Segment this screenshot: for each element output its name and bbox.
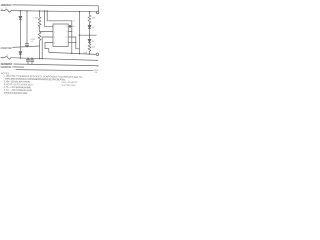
diode D4 label [92, 41, 95, 43]
pin 7 stub [68, 31, 72, 33]
svg-text:AC LINE POWER: AC LINE POWER [0, 47, 12, 50]
svg-text:3: 3 [54, 37, 55, 39]
svg-text:1: 1 [54, 26, 55, 28]
wire mid tap [80, 34, 97, 36]
capacitor C3 value [72, 26, 76, 28]
svg-text:8: 8 [66, 26, 67, 28]
diode D3 label [92, 27, 95, 29]
pin numbers left [54, 26, 55, 44]
resistor R5 [88, 12, 91, 26]
fuse F1 label [1, 9, 4, 11]
wire [19, 19, 21, 51]
pin 5 stub [68, 42, 76, 44]
wire rail D [49, 52, 97, 54]
wire rail H [16, 70, 93, 71]
capacitor C5 [27, 58, 29, 64]
wire R2 to rail E [39, 46, 41, 59]
diode D4 [88, 39, 91, 42]
svg-text:1.0M: 1.0M [33, 18, 38, 20]
svg-text:0.1M: 0.1M [30, 39, 35, 41]
fuse F2 [1, 56, 11, 59]
notes annotation right [62, 81, 79, 87]
svg-text:2: 2 [54, 31, 55, 33]
capacitor C3 [70, 25, 71, 28]
rail D label [84, 53, 88, 55]
svg-text:AC NEUTRAL/TERMINATOR: AC NEUTRAL/TERMINATOR [0, 63, 12, 66]
terminal J1 [96, 11, 99, 14]
resistor R5 value [92, 18, 96, 20]
svg-text:6: 6 [66, 37, 67, 39]
node NEUTRAL POWER label [0, 66, 11, 69]
svg-text:C2: C2 [73, 21, 75, 23]
wire top rail A [12, 5, 98, 11]
diode D3 [88, 25, 91, 28]
wire V47 overhead [47, 11, 72, 53]
wire rail C [13, 46, 40, 47]
capacitor C1 value [30, 41, 34, 43]
fuse F1 ref [5, 8, 7, 10]
junction dots [20, 10, 91, 59]
wire pin4 [45, 43, 53, 53]
wire pin3 [42, 37, 53, 59]
fuse F2 ref [6, 54, 8, 56]
resistor R6 value [92, 47, 96, 49]
svg-text:NEUTRAL POWER: NEUTRAL POWER [0, 66, 11, 69]
figure number [94, 70, 99, 74]
capacitor C6 [31, 58, 33, 64]
wire tap to pin2 [40, 27, 53, 31]
svg-text:AC LINE/TERMINATOR: AC LINE/TERMINATOR [0, 4, 12, 7]
IC U1 [53, 24, 68, 46]
resistor R2 value [30, 39, 35, 41]
svg-text:VOUT 18 TO 24V: VOUT 18 TO 24V [62, 85, 77, 87]
terminal J2 [96, 53, 99, 56]
capacitor C1 [25, 44, 29, 45]
fuse F2 label [1, 57, 5, 59]
svg-text:6. ROHS COMPLIANT ASSY: 6. ROHS COMPLIANT ASSY [4, 92, 28, 95]
node AC LINE label [0, 4, 12, 7]
resistor R1 value [33, 18, 38, 20]
wire rail F [13, 64, 98, 67]
svg-text:4: 4 [54, 42, 55, 44]
resistor R2 [38, 32, 41, 47]
wire [89, 29, 91, 40]
node LINE POWER label [0, 47, 12, 50]
wire V44 to pin1 [44, 11, 53, 26]
pin 6 stub [68, 37, 79, 49]
wire [26, 45, 28, 47]
fuse F1 [1, 9, 12, 12]
capacitor C2 value [73, 21, 75, 23]
svg-text:7: 7 [66, 31, 67, 33]
wire V27 [26, 11, 28, 44]
wire rail G [12, 66, 24, 68]
wire V20 [19, 11, 21, 16]
node AC NEUTRAL label [0, 63, 12, 66]
pin numbers right [66, 26, 67, 44]
pin 8 stub [68, 25, 72, 27]
wire rail E [11, 58, 98, 61]
wire rail B [11, 11, 97, 12]
notes text [1, 73, 83, 96]
diode D2 [19, 52, 22, 55]
diode D1 [19, 16, 22, 19]
resistor R6 [88, 42, 91, 54]
wire [19, 55, 21, 58]
svg-text:5. TA = -40C MINIMUM AMB: 5. TA = -40C MINIMUM AMB [4, 89, 32, 92]
svg-text:5: 5 [66, 42, 67, 44]
wire V80 [79, 12, 81, 54]
resistor R1 [38, 11, 41, 27]
svg-text:IOUT = 20 mA TYP: IOUT = 20 mA TYP [62, 81, 79, 84]
